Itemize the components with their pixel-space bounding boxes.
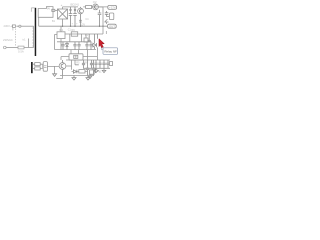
wire bottom left stub (89, 74, 94, 78)
transistor Q1 (78, 8, 84, 14)
terminal J2 (4, 46, 7, 49)
fuse F2 (18, 46, 24, 49)
cap bank C8 (77, 42, 80, 50)
tag +12V (108, 5, 117, 9)
svg-text:Q2: Q2 (93, 0, 97, 4)
wire secondary low (38, 17, 40, 26)
switch S2 (105, 19, 109, 24)
electrolytic C17 (43, 62, 47, 72)
wire (47, 66, 59, 73)
transistor Q2 (93, 4, 99, 10)
cap bank C19 (82, 60, 85, 68)
right cap bank C14 (98, 60, 101, 68)
resistor R2 (71, 32, 77, 36)
right cap bank C16 (106, 60, 109, 68)
dc rail + (63, 6, 109, 8)
svg-text:+: + (61, 3, 63, 7)
mid bus 0V (39, 25, 108, 27)
wire right column (102, 7, 104, 26)
bus rail6 (83, 67, 110, 69)
zener ZD2 (98, 10, 102, 26)
ground G1 (72, 76, 76, 81)
right cap bank C13 (94, 60, 97, 68)
cursor (99, 39, 104, 48)
wire long column (87, 50, 89, 60)
comparator module U1 (69, 54, 83, 60)
svg-text:BD241: BD241 (71, 3, 80, 7)
wire bridge plus (62, 7, 64, 26)
transformer TR1 primary winding (33, 26, 35, 47)
resistor R1 (86, 6, 92, 9)
cap C18 (88, 34, 91, 42)
relay contact K1a (90, 70, 95, 74)
wire (72, 71, 79, 73)
ground G3 (94, 68, 98, 72)
bridge rectifier B1 (58, 9, 68, 19)
bus rail5 (60, 75, 94, 77)
wire drop (72, 60, 79, 70)
diode D2 (73, 70, 77, 74)
right cap bank C15 (102, 60, 105, 68)
zener ZD1 (79, 20, 82, 22)
polarity circle C1 (70, 9, 72, 11)
wire stub L (56, 76, 62, 79)
stub (105, 31, 107, 34)
wire stub (96, 34, 98, 39)
cap C4 electrolytic (109, 13, 113, 20)
cap C2 (73, 7, 77, 26)
bus rail4 (66, 59, 110, 61)
wire IC1 pins (55, 26, 61, 49)
cap C12 (92, 60, 95, 76)
wire AC to bridge (55, 9, 58, 11)
winding box W1 (35, 63, 41, 66)
cap C3 (105, 11, 110, 17)
tooltip Relay NF (101, 45, 118, 54)
junction dots (62, 26, 104, 27)
ground G5 (53, 74, 57, 77)
shield stub (31, 8, 34, 12)
svg-text:0.5A: 0.5A (18, 50, 24, 54)
svg-text:+12V: +12V (109, 6, 116, 10)
switch linkage dashed (15, 29, 17, 46)
wire q3 collector (66, 65, 72, 67)
svg-text:12V: 12V (81, 22, 86, 26)
electrolytic C17 plates (44, 66, 47, 68)
labels R5 R6 (76, 61, 88, 64)
wire (6, 47, 18, 49)
svg-text:9V: 9V (47, 7, 50, 10)
cap C11 (86, 60, 89, 76)
cap bank C5 (61, 42, 64, 50)
secondary block box (38, 7, 53, 18)
fuse F1 (12, 25, 15, 28)
switch S1 (19, 25, 21, 27)
wire (33, 64, 43, 68)
transistor Q3 (59, 63, 66, 70)
bus rail3 (55, 49, 96, 51)
wire (24, 39, 34, 48)
wire second rail (65, 26, 103, 34)
bus rail2 (57, 41, 92, 43)
wire stub under fuse (12, 28, 14, 30)
cap bank C9 (85, 42, 88, 50)
diode D1 (93, 34, 97, 49)
cap C1 (69, 7, 73, 26)
cap bank C10 (89, 42, 92, 50)
relay K1 box (84, 38, 88, 42)
diode D4 (66, 42, 69, 50)
wire relay down (96, 47, 98, 60)
resistor R3 (79, 70, 85, 73)
wire (85, 70, 88, 72)
svg-text:Relay NF: Relay NF (104, 50, 117, 54)
low voltage block core (31, 62, 33, 73)
svg-text:OUT: OUT (109, 24, 115, 28)
winding box W2 (35, 67, 41, 70)
micro labels (68, 18, 89, 32)
ground G2 (86, 76, 90, 81)
transformer TR1 core (35, 8, 37, 56)
connector J3 (109, 62, 112, 66)
dip IC A (74, 55, 78, 58)
svg-text:230VAC: 230VAC (3, 38, 13, 42)
svg-text:230V~: 230V~ (4, 24, 12, 28)
wire module pins (61, 50, 97, 60)
ground G4 (102, 68, 106, 72)
polarity circle C2 (74, 9, 76, 11)
diode D3 (95, 69, 98, 72)
cap bank C7 (73, 42, 76, 50)
wire cap drops (70, 34, 82, 42)
regulator IC1 (57, 32, 65, 39)
wire (21, 25, 33, 27)
wire (12, 25, 19, 27)
tag OUT (108, 24, 117, 28)
cap bank C20 (90, 60, 93, 68)
fuse F3 (52, 9, 55, 11)
